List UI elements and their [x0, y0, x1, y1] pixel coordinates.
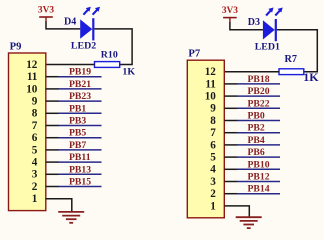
svg-text:3: 3 [210, 176, 216, 188]
svg-text:1: 1 [210, 200, 216, 212]
svg-text:PB6: PB6 [248, 147, 265, 158]
svg-text:PB4: PB4 [248, 135, 265, 146]
svg-text:12: 12 [26, 59, 38, 71]
svg-text:PB22: PB22 [248, 98, 270, 109]
svg-text:PB20: PB20 [248, 86, 270, 97]
svg-text:P9: P9 [10, 41, 22, 52]
svg-text:1: 1 [32, 193, 38, 205]
svg-text:PB23: PB23 [69, 91, 91, 102]
svg-text:9: 9 [210, 103, 216, 115]
svg-text:1K: 1K [122, 66, 135, 77]
svg-text:4: 4 [210, 164, 216, 176]
svg-text:12: 12 [205, 66, 217, 78]
svg-text:7: 7 [210, 127, 216, 139]
svg-text:PB10: PB10 [248, 159, 270, 170]
svg-text:PB18: PB18 [248, 74, 270, 85]
svg-text:2: 2 [210, 188, 216, 200]
svg-text:7: 7 [32, 120, 38, 132]
svg-text:PB3: PB3 [69, 116, 86, 127]
svg-text:11: 11 [27, 71, 38, 83]
svg-text:PB11: PB11 [69, 152, 91, 163]
svg-text:R7: R7 [285, 54, 297, 65]
svg-text:11: 11 [205, 78, 216, 90]
svg-text:PB0: PB0 [248, 111, 265, 122]
svg-text:PB21: PB21 [69, 79, 91, 90]
svg-text:D3: D3 [248, 17, 260, 28]
svg-text:3V3: 3V3 [222, 6, 238, 16]
svg-text:PB1: PB1 [69, 103, 86, 114]
svg-text:R10: R10 [101, 49, 118, 60]
svg-text:LED1: LED1 [255, 41, 280, 52]
svg-text:LED2: LED2 [71, 40, 96, 51]
svg-text:PB2: PB2 [248, 123, 265, 134]
svg-text:P7: P7 [188, 49, 200, 60]
svg-text:8: 8 [210, 115, 216, 127]
svg-text:PB14: PB14 [248, 184, 270, 195]
svg-text:2: 2 [32, 181, 38, 193]
svg-text:8: 8 [32, 108, 38, 120]
svg-text:5: 5 [32, 144, 38, 156]
svg-text:PB13: PB13 [69, 164, 91, 175]
svg-text:PB5: PB5 [69, 128, 86, 139]
svg-text:PB19: PB19 [69, 67, 91, 78]
svg-text:4: 4 [32, 157, 38, 169]
svg-text:PB7: PB7 [69, 140, 86, 151]
svg-text:9: 9 [32, 96, 38, 108]
svg-text:10: 10 [205, 91, 217, 103]
svg-text:3V3: 3V3 [38, 5, 54, 15]
svg-text:3: 3 [32, 169, 38, 181]
svg-text:PB12: PB12 [248, 172, 270, 183]
svg-text:10: 10 [26, 83, 38, 95]
svg-text:6: 6 [210, 139, 216, 151]
svg-text:D4: D4 [64, 16, 76, 27]
svg-text:5: 5 [210, 152, 216, 164]
svg-text:6: 6 [32, 132, 38, 144]
svg-text:PB15: PB15 [69, 177, 91, 188]
svg-text:1K: 1K [303, 70, 319, 84]
